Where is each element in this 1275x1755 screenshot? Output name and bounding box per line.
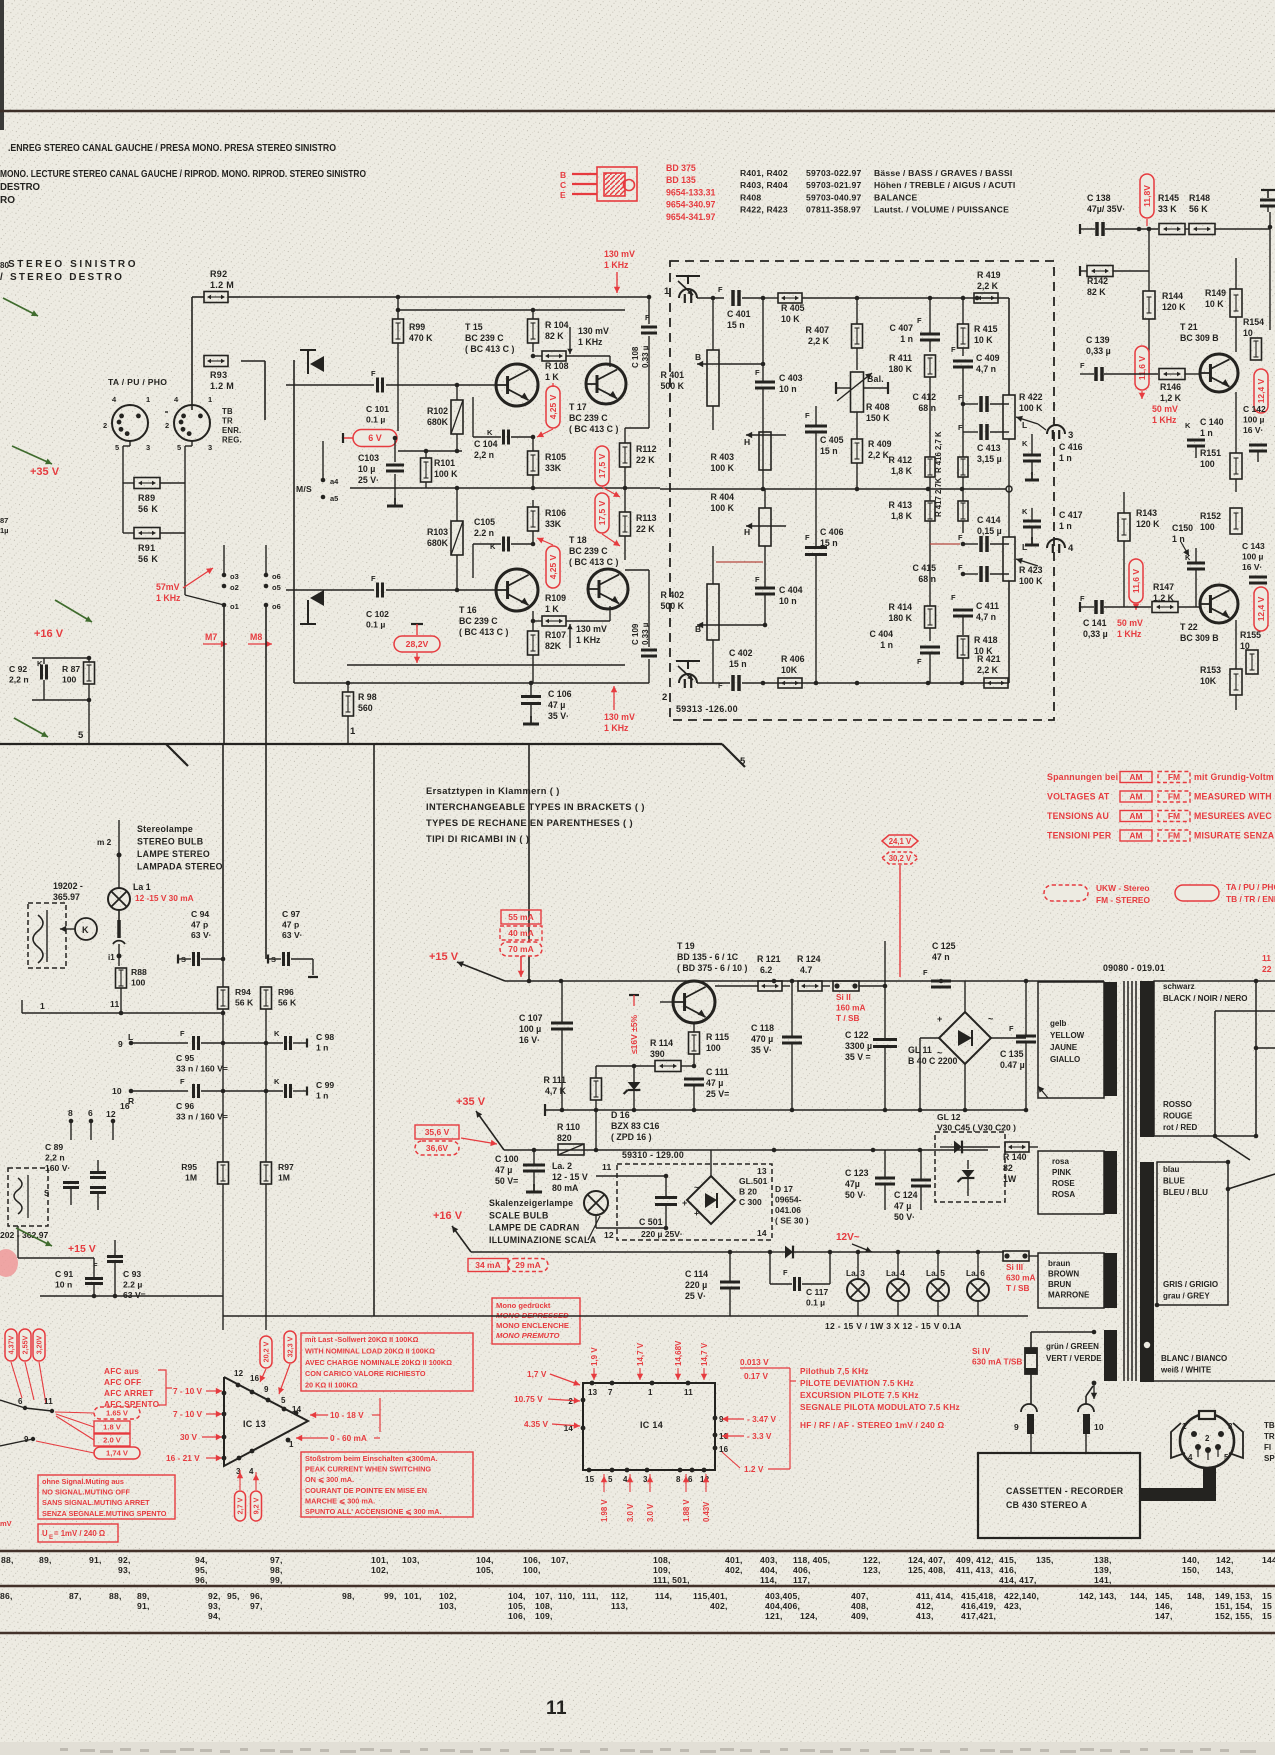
decoder bottom wires [18, 1257, 94, 1259]
svg-text:1: 1 [146, 395, 150, 404]
svg-text:R106: R106 [545, 508, 566, 518]
svg-text:a4: a4 [330, 477, 339, 486]
table rule 2 [0, 1585, 1275, 1587]
svg-text:107,: 107, [535, 1591, 553, 1601]
capacitor C106 [521, 695, 541, 698]
transistor T16 [496, 569, 538, 611]
long vertical from preamp 2 [528, 744, 530, 981]
svg-text:111, 501,: 111, 501, [653, 1575, 690, 1585]
svg-text:12 - 15 V: 12 - 15 V [552, 1172, 588, 1182]
svg-text:1M: 1M [185, 1173, 197, 1183]
svg-text:33K: 33K [545, 519, 562, 529]
svg-text:97,: 97, [270, 1555, 283, 1565]
svg-text:La. 4: La. 4 [886, 1268, 905, 1278]
svg-text:C150: C150 [1172, 523, 1193, 533]
switch contact o2 [222, 584, 227, 589]
resistor R414 [925, 606, 936, 628]
DIN pins [1191, 1431, 1197, 1437]
red pill 11.6V upper [1135, 346, 1149, 390]
svg-text:820: 820 [557, 1133, 572, 1143]
svg-text:9: 9 [118, 1039, 123, 1049]
svg-text:R145: R145 [1158, 193, 1179, 203]
svg-text:R 414: R 414 [889, 602, 913, 612]
svg-text:10 µ: 10 µ [358, 464, 375, 474]
svg-text:ROUGE: ROUGE [1163, 1112, 1193, 1121]
svg-text:C 135: C 135 [1000, 1049, 1024, 1059]
svg-text:95,: 95, [195, 1565, 208, 1575]
svg-text:16 - 21 V: 16 - 21 V [166, 1453, 200, 1463]
svg-text:R92: R92 [210, 269, 227, 279]
svg-text:150,: 150, [1182, 1565, 1200, 1575]
schwarz rosso label box [1154, 981, 1256, 1136]
+35V rail [504, 1149, 988, 1151]
svg-text:33K: 33K [545, 463, 562, 473]
black arrow +35V [476, 1111, 504, 1150]
svg-text:15: 15 [1262, 1611, 1272, 1621]
svg-text:C 414: C 414 [977, 515, 1001, 525]
svg-text:141,: 141, [1094, 1575, 1112, 1585]
svg-text:T / SB: T / SB [1006, 1283, 1030, 1293]
svg-text:R 111: R 111 [543, 1075, 566, 1085]
wire R93 to switch [241, 360, 265, 362]
blau gris label box [1157, 1162, 1228, 1305]
svg-text:220 µ: 220 µ [685, 1280, 707, 1290]
svg-text:F: F [718, 285, 723, 294]
svg-text:R93: R93 [210, 370, 227, 380]
svg-text:413,: 413, [916, 1611, 934, 1621]
resistor R95 [218, 1162, 229, 1184]
svg-text:0.43V: 0.43V [702, 1501, 711, 1522]
svg-text:9654-133.31: 9654-133.31 [666, 187, 716, 197]
svg-text:C 94: C 94 [191, 909, 209, 919]
svg-text:BD 135: BD 135 [666, 175, 696, 185]
svg-text:R151: R151 [1200, 448, 1221, 458]
svg-text:403,405,: 403,405, [765, 1591, 800, 1601]
resistor R104 [528, 319, 539, 343]
svg-text:9654-341.97: 9654-341.97 [666, 212, 716, 222]
svg-text:BC 239 C: BC 239 C [459, 616, 498, 626]
svg-text:R94: R94 [235, 987, 251, 997]
svg-text:PEAK CURRENT WHEN SWITCHING: PEAK CURRENT WHEN SWITCHING [305, 1465, 431, 1474]
svg-text:= 1mV / 240 Ω: = 1mV / 240 Ω [54, 1529, 105, 1538]
resistor R143 [1118, 513, 1130, 541]
svg-text:63 V∙: 63 V∙ [282, 930, 302, 940]
wire R401 col [762, 298, 764, 364]
red 30.2V pill [882, 852, 918, 864]
mid rail [350, 487, 660, 489]
svg-text:F: F [951, 593, 956, 602]
red pill 29mA [508, 1259, 548, 1272]
svg-text:422,140,: 422,140, [1004, 1591, 1039, 1601]
svg-text:2: 2 [103, 421, 107, 430]
red pill 70mA [500, 942, 542, 956]
svg-text:8: 8 [68, 1108, 73, 1118]
svg-text:AFC ARRET: AFC ARRET [104, 1388, 153, 1398]
svg-text:F: F [951, 345, 956, 354]
svg-text:~: ~ [694, 1182, 699, 1192]
svg-text:MONO. LECTURE STEREO CANAL: MONO. LECTURE STEREO CANAL GAUCHE / RIPR… [0, 168, 366, 180]
svg-text:4.7: 4.7 [800, 965, 812, 975]
svg-text:1 K: 1 K [545, 372, 559, 382]
svg-text:30 V: 30 V [180, 1432, 198, 1442]
gl12 diode2 [962, 1170, 975, 1178]
resistor R419 [974, 293, 998, 303]
thick bar schwarz [1140, 981, 1154, 1137]
svg-text:( BC 413 C ): ( BC 413 C ) [459, 627, 508, 637]
svg-text:~: ~ [988, 1014, 993, 1024]
svg-text:10 n: 10 n [779, 384, 797, 394]
red pill 32.3V [284, 1331, 296, 1363]
svg-text:R143: R143 [1136, 508, 1157, 518]
svg-text:102,: 102, [439, 1591, 457, 1601]
svg-text:11,6 V: 11,6 V [1137, 356, 1147, 380]
svg-text:10 - 18 V: 10 - 18 V [330, 1410, 364, 1420]
svg-text:H: H [744, 527, 750, 537]
svg-text:1,74 V: 1,74 V [106, 1449, 129, 1458]
wire fuse top [1030, 1332, 1032, 1348]
bottom lamp rail [223, 1315, 1028, 1317]
resistor R97 [261, 1162, 272, 1184]
svg-text:9: 9 [1014, 1422, 1019, 1432]
svg-text:C 125: C 125 [932, 941, 956, 951]
long column M7 [222, 959, 224, 987]
svg-text:M7: M7 [205, 632, 217, 642]
svg-text:+15 V: +15 V [68, 1243, 96, 1255]
svg-text:1.98 V: 1.98 V [600, 1499, 609, 1522]
svg-text:1 n: 1 n [1200, 428, 1213, 438]
wire plug10 up [1085, 1396, 1087, 1404]
svg-text:C 122: C 122 [845, 1030, 869, 1040]
green arrow mid [14, 718, 48, 737]
svg-text:3: 3 [1228, 1422, 1233, 1431]
svg-text:100: 100 [1200, 459, 1215, 469]
svg-text:Mono gedrückt: Mono gedrückt [496, 1301, 551, 1310]
svg-text:130 mV: 130 mV [604, 249, 635, 259]
svg-text:2,2 K: 2,2 K [868, 450, 890, 460]
svg-text:GL.501: GL.501 [739, 1176, 768, 1186]
svg-text:Si IV: Si IV [972, 1346, 990, 1356]
svg-text:R 411: R 411 [889, 353, 912, 363]
svg-text:0.17 V: 0.17 V [744, 1371, 768, 1381]
svg-text:114,: 114, [655, 1591, 672, 1601]
svg-text:15 n: 15 n [820, 446, 838, 456]
svg-text:TENSIONI PER: TENSIONI PER [1047, 831, 1112, 841]
resistor R102 [451, 400, 463, 434]
svg-text:( BC 413 C ): ( BC 413 C ) [465, 344, 514, 354]
svg-text:L: L [128, 1032, 133, 1042]
svg-text:F: F [958, 533, 963, 542]
svg-text:PILOTE DEVIATION 7.5 KHz: PILOTE DEVIATION 7.5 KHz [800, 1378, 914, 1388]
svg-text:35,6 V: 35,6 V [425, 1127, 450, 1137]
svg-text:+16 V: +16 V [433, 1210, 463, 1222]
svg-text:12: 12 [604, 1230, 614, 1240]
svg-text:1 KHz: 1 KHz [604, 723, 629, 733]
svg-text:( BC 413 C ): ( BC 413 C ) [569, 424, 618, 434]
svg-text:( BD 375 - 6 / 10 ): ( BD 375 - 6 / 10 ) [677, 963, 747, 973]
svg-text:5: 5 [1224, 1453, 1229, 1462]
svg-text:10.75 V: 10.75 V [514, 1394, 543, 1404]
svg-text:F: F [805, 533, 810, 542]
svg-text:1 KHz: 1 KHz [1117, 629, 1142, 639]
svg-text:409,: 409, [851, 1611, 869, 1621]
svg-text:33 n / 160 V=: 33 n / 160 V= [176, 1112, 228, 1122]
svg-text:GIALLO: GIALLO [1050, 1055, 1080, 1064]
svg-text:BC 239 C: BC 239 C [465, 333, 504, 343]
svg-text:112,: 112, [611, 1591, 628, 1601]
svg-text:MISURATE SENZA SE: MISURATE SENZA SE [1194, 831, 1275, 841]
svg-text:120 K: 120 K [1162, 302, 1186, 312]
svg-text:149, 153,: 149, 153, [1215, 1591, 1253, 1601]
svg-text:m 2: m 2 [97, 837, 112, 847]
svg-text:0.013 V: 0.013 V [740, 1357, 769, 1367]
svg-text:144,: 144, [1262, 1555, 1275, 1565]
svg-text:2,7 V: 2,7 V [236, 1497, 245, 1514]
svg-text:0.1 µ: 0.1 µ [366, 620, 385, 630]
svg-text:16 V∙: 16 V∙ [519, 1035, 540, 1045]
svg-text:50 V∙: 50 V∙ [894, 1212, 915, 1222]
DIN connector [1180, 1414, 1234, 1468]
svg-text:33 K: 33 K [1158, 204, 1177, 214]
wire fuse to plug9 [1030, 1374, 1032, 1404]
svg-text:47µ/ 35V∙: 47µ/ 35V∙ [1087, 204, 1125, 214]
svg-text:Lautst. / VOLUME / PUISSANCE: Lautst. / VOLUME / PUISSANCE [874, 205, 1009, 215]
svg-text:o1: o1 [230, 602, 239, 611]
svg-text:100,: 100, [523, 1565, 541, 1575]
svg-text:100: 100 [706, 1043, 721, 1053]
svg-text:AM: AM [1129, 772, 1142, 782]
svg-text:20 KΩ II 100KΩ: 20 KΩ II 100KΩ [305, 1381, 358, 1390]
svg-text:5: 5 [608, 1475, 613, 1484]
svg-text:TR: TR [222, 417, 233, 426]
svg-text:R105: R105 [545, 452, 566, 462]
wires R41x to rail [929, 477, 931, 489]
svg-text:3: 3 [208, 443, 212, 452]
long vertical from preamp 1 [373, 744, 375, 1316]
red arrow 55mA down [520, 956, 522, 974]
red 28.2V pill [394, 636, 440, 652]
IC14 bottom pins [587, 1468, 592, 1473]
svg-text:IC 14: IC 14 [640, 1420, 663, 1430]
svg-text:57mV: 57mV [156, 582, 180, 592]
svg-text:29 mA: 29 mA [515, 1260, 541, 1270]
resistor R148 [1189, 224, 1215, 235]
svg-text:C 406: C 406 [820, 527, 844, 537]
svg-text:C 407: C 407 [890, 323, 914, 333]
red pill 20.2V [260, 1336, 272, 1368]
resistor R107 [528, 631, 539, 655]
capacitor C117 [769, 1252, 771, 1284]
svg-text:R113: R113 [636, 513, 657, 523]
svg-text:1.88 V: 1.88 V [682, 1499, 691, 1522]
svg-text:106,: 106, [508, 1611, 526, 1621]
long column M8 [265, 958, 267, 960]
svg-text:R403, R404: R403, R404 [740, 180, 788, 190]
resistor R405 [778, 293, 802, 303]
pot R422 [1003, 395, 1015, 439]
svg-text:+: + [694, 1208, 699, 1218]
svg-text:22 K: 22 K [636, 455, 655, 465]
svg-text:180 K: 180 K [889, 613, 913, 623]
svg-text:140,: 140, [1182, 1555, 1200, 1565]
svg-text:blau: blau [1163, 1165, 1180, 1174]
svg-text:122,: 122, [863, 1555, 881, 1565]
svg-text:10 K: 10 K [1205, 299, 1224, 309]
mid rail tone [660, 488, 1009, 490]
svg-text:95,: 95, [227, 1591, 240, 1601]
svg-text:CASSETTEN - RECORDER: CASSETTEN - RECORDER [1006, 1486, 1124, 1496]
resistor R108 [542, 351, 566, 361]
svg-text:1 K: 1 K [545, 604, 559, 614]
transistor T17 [586, 364, 626, 404]
svg-text:96,: 96, [250, 1591, 263, 1601]
svg-text:EXCURSION PILOTE 7.5 KHz: EXCURSION PILOTE 7.5 KHz [800, 1390, 919, 1400]
resistor R92 [204, 292, 228, 303]
svg-text:ON ⩽ 300 mA.: ON ⩽ 300 mA. [305, 1475, 354, 1484]
gl12 dashed box [935, 1132, 1005, 1202]
svg-text:56 K: 56 K [138, 554, 158, 564]
svg-text:3.0 V: 3.0 V [646, 1503, 655, 1522]
resistor R113 [620, 512, 631, 536]
svg-text:120 K: 120 K [1136, 519, 1160, 529]
resistor R87 [84, 662, 95, 684]
svg-text:88,: 88, [1, 1555, 14, 1565]
svg-text:C 92: C 92 [9, 664, 27, 674]
svg-text:1 n: 1 n [880, 640, 893, 650]
svg-text:T 18: T 18 [569, 535, 587, 545]
svg-text:TIPI DI RICAMBI IN ( ): TIPI DI RICAMBI IN ( ) [426, 834, 529, 844]
svg-text:4,37V: 4,37V [7, 1335, 16, 1354]
svg-text:C 403: C 403 [779, 373, 803, 383]
svg-text:R 418: R 418 [974, 635, 998, 645]
bottom scan band [0, 1742, 1275, 1755]
svg-text:R95: R95 [181, 1162, 197, 1172]
svg-text:50 V∙: 50 V∙ [845, 1190, 866, 1200]
svg-text:M/S: M/S [296, 484, 312, 494]
svg-text:K: K [82, 925, 89, 935]
svg-text:414, 417,: 414, 417, [999, 1575, 1037, 1585]
svg-text:148,: 148, [1187, 1591, 1205, 1601]
svg-text:115,: 115, [693, 1591, 710, 1601]
svg-text:Bal.: Bal. [867, 374, 884, 384]
svg-text:≤16V ±5%: ≤16V ±5% [629, 1014, 639, 1054]
svg-text:TENSIONS AU: TENSIONS AU [1047, 811, 1109, 821]
svg-text:1.8 V: 1.8 V [103, 1423, 122, 1432]
svg-text:11: 11 [546, 1698, 567, 1719]
lamp La2 [584, 1191, 608, 1215]
svg-text:10: 10 [1243, 328, 1253, 338]
svg-text:R142: R142 [1087, 276, 1108, 286]
svg-text:C 409: C 409 [976, 353, 1000, 363]
svg-text:2,2 K: 2,2 K [808, 336, 830, 346]
red dashed pill 1.65V [94, 1407, 140, 1419]
svg-text:C 143: C 143 [1242, 541, 1265, 551]
svg-text:24,1 V: 24,1 V [889, 837, 912, 846]
svg-text:CON CARICO VALORE RICHIESTO: CON CARICO VALORE RICHIESTO [305, 1369, 426, 1378]
svg-text:135,: 135, [1036, 1555, 1054, 1565]
svg-text:R 114: R 114 [650, 1038, 673, 1048]
relay K circle [75, 918, 97, 940]
top rule [0, 110, 1275, 113]
svg-text:403,: 403, [760, 1555, 778, 1565]
thick bar gruen-left [1104, 1330, 1117, 1381]
svg-text:+35 V: +35 V [30, 466, 60, 478]
svg-text:113,: 113, [611, 1601, 628, 1611]
svg-text:87,: 87, [69, 1591, 82, 1601]
red 17.5V pill upper [595, 446, 609, 486]
svg-text:R 110: R 110 [557, 1122, 580, 1132]
svg-text:417,421,: 417,421, [961, 1611, 996, 1621]
svg-text:70 mA: 70 mA [508, 944, 534, 954]
table rule 3 [0, 1632, 1275, 1635]
svg-text:F: F [755, 368, 760, 377]
svg-text:100 µ: 100 µ [1242, 552, 1264, 562]
svg-text:10: 10 [112, 1086, 122, 1096]
svg-text:C 412: C 412 [913, 392, 937, 402]
svg-text:404,: 404, [760, 1565, 778, 1575]
transistor package icon [572, 167, 637, 201]
resistor R115 [689, 1032, 700, 1054]
svg-text:1W: 1W [1003, 1174, 1017, 1184]
svg-text:R96: R96 [278, 987, 294, 997]
svg-text:130 mV: 130 mV [578, 326, 609, 336]
svg-text:FM: FM [1168, 811, 1180, 821]
svg-text:( BC 413 C ): ( BC 413 C ) [569, 557, 618, 567]
capacitor C404 [755, 587, 775, 590]
svg-text:7 - 10 V: 7 - 10 V [173, 1386, 203, 1396]
svg-text:416,419,: 416,419, [961, 1601, 996, 1611]
svg-text:F: F [1080, 361, 1085, 370]
svg-text:6: 6 [18, 1397, 23, 1406]
svg-text:63 V∙: 63 V∙ [191, 930, 211, 940]
svg-text:SEGNALE PILOTA MODULATO 7.5: SEGNALE PILOTA MODULATO 7.5 KHz [800, 1402, 960, 1412]
resistor R407 [852, 324, 863, 348]
svg-text:E: E [49, 1535, 53, 1541]
svg-text:6: 6 [88, 1108, 93, 1118]
svg-text:ILLUMINAZIONE SCALA: ILLUMINAZIONE SCALA [489, 1235, 597, 1245]
svg-text:100 µ: 100 µ [519, 1024, 541, 1034]
svg-text:3: 3 [146, 443, 150, 452]
svg-text:1: 1 [1182, 1422, 1187, 1431]
svg-text:C 402: C 402 [729, 648, 753, 658]
svg-text:47 µ: 47 µ [495, 1165, 512, 1175]
svg-text:2.0 V: 2.0 V [103, 1436, 122, 1445]
svg-text:F: F [783, 1268, 788, 1277]
svg-text:F: F [1080, 594, 1085, 603]
svg-text:o6: o6 [272, 572, 281, 581]
svg-text:1 n: 1 n [316, 1091, 328, 1101]
resistor R88 [116, 968, 127, 988]
svg-text:1 KHz: 1 KHz [1152, 415, 1177, 425]
svg-text:rot / RED: rot / RED [1163, 1123, 1197, 1132]
svg-text:R102: R102 [427, 406, 448, 416]
svg-text:36,6V: 36,6V [426, 1143, 449, 1153]
svg-text:+: + [937, 1014, 942, 1024]
svg-text:402,: 402, [725, 1565, 743, 1575]
svg-text:GRIS / GRIGIO: GRIS / GRIGIO [1163, 1280, 1218, 1289]
svg-text:R 423: R 423 [1019, 565, 1043, 575]
red lines to pills [55, 1412, 94, 1413]
svg-text:ROSE: ROSE [1052, 1179, 1075, 1188]
svg-text:U: U [42, 1529, 48, 1538]
svg-text:R 413: R 413 [889, 500, 913, 510]
svg-text:1 n: 1 n [1172, 534, 1185, 544]
svg-text:7 - 10 V: 7 - 10 V [173, 1409, 203, 1419]
svg-text:o5: o5 [272, 583, 281, 592]
svg-text:R 401: R 401 [661, 370, 685, 380]
svg-text:R 415: R 415 [974, 324, 998, 334]
svg-text:C 413: C 413 [977, 443, 1001, 453]
svg-text:50 mV: 50 mV [1152, 404, 1178, 414]
